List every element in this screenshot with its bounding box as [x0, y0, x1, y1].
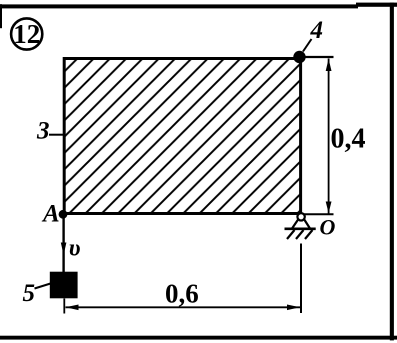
frame bottom border [0, 336, 397, 340]
left extension line for dimension 0,6 [63, 299, 65, 314]
dimension line 0,4 [326, 59, 332, 214]
bottom extension line for dimension 0,4 [303, 213, 334, 215]
svg-text:0,6: 0,6 [165, 279, 199, 309]
block 5 (filled square) [50, 272, 78, 299]
frame top border [0, 3, 397, 9]
frame left border stub [0, 4, 2, 28]
svg-text:0,4: 0,4 [331, 124, 366, 155]
label 3 leader [49, 134, 64, 136]
label 4 leader [303, 39, 312, 52]
label 5 leader [35, 284, 51, 289]
top extension line for dimension 0,4 [302, 56, 334, 58]
velocity arrow v [61, 243, 67, 256]
svg-text:3: 3 [36, 118, 50, 145]
svg-text:12: 12 [13, 19, 40, 49]
rope from A to block 5 [62, 218, 64, 272]
svg-text:A: A [41, 201, 60, 228]
frame right border [390, 3, 394, 341]
svg-text:υ: υ [69, 236, 81, 262]
dimension line 0,6 [66, 305, 301, 311]
right extension line below O [300, 244, 302, 314]
point 4 (corner dot) [293, 51, 305, 63]
plate 3 (hatched rectangle) [64, 59, 300, 214]
svg-text:O: O [320, 215, 336, 240]
point A (corner dot) [59, 210, 68, 219]
svg-text:5: 5 [23, 280, 36, 307]
task number circle 12 [11, 18, 42, 49]
svg-text:4: 4 [310, 17, 324, 44]
pin support at O [285, 213, 316, 239]
